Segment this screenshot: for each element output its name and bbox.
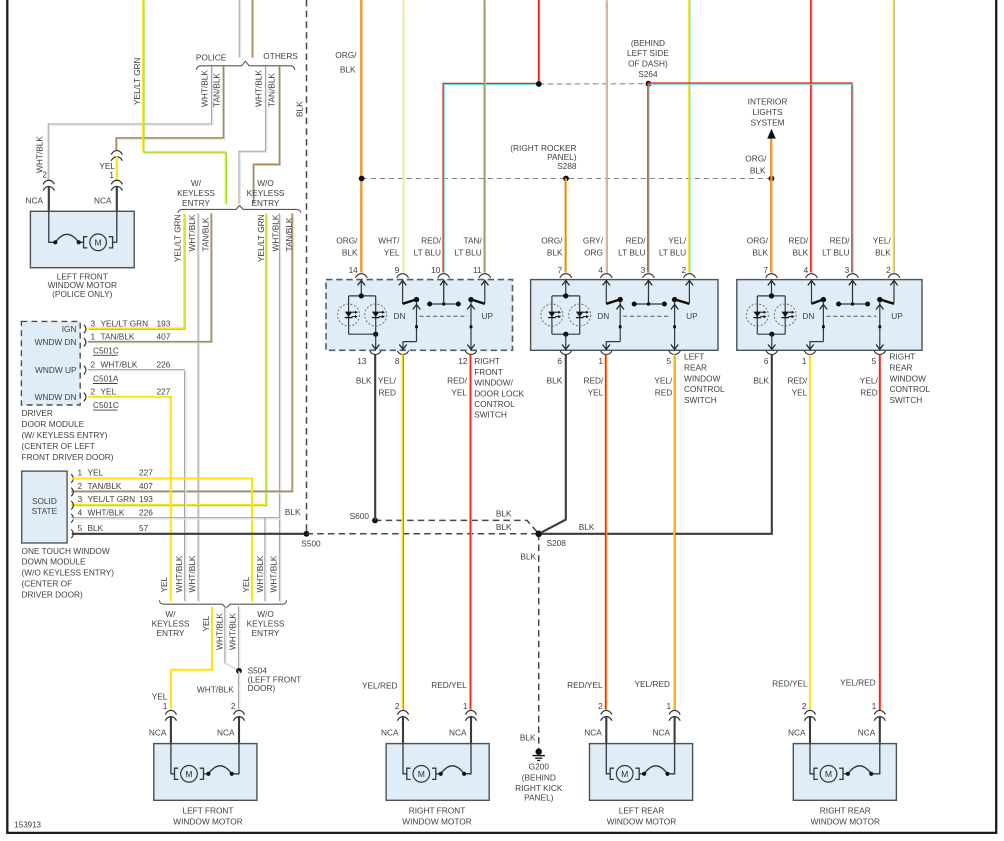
svg-text:RED/YEL: RED/YEL — [567, 680, 603, 690]
svg-text:IGN: IGN — [62, 324, 77, 334]
svg-text:S264: S264 — [638, 69, 658, 79]
svg-text:YEL: YEL — [451, 388, 467, 398]
svg-text:57: 57 — [139, 523, 149, 533]
pin socket arc top sw1 x 484.8 — [479, 274, 491, 278]
wire BLK right front switch pin13 to S600 — [374, 355, 376, 521]
wire YEL from WNDW DN down to lower brace — [88, 397, 170, 602]
pin socket arc bottom sw3 x 810.0 — [804, 351, 815, 355]
svg-text:S600: S600 — [350, 511, 370, 521]
svg-text:DRIVER: DRIVER — [22, 408, 53, 418]
svg-text:153913: 153913 — [14, 821, 41, 830]
svg-text:(POLICE ONLY): (POLICE ONLY) — [52, 289, 112, 299]
wire YEL/LT GRN main from top to keyless brace — [143, 0, 227, 205]
pin label ORG/BLK (sw2 pin7) — [541, 236, 563, 258]
svg-text:NCA: NCA — [25, 196, 43, 206]
svg-text:LT BLU: LT BLU — [618, 247, 645, 257]
wire NCA to right front window motor right pin — [470, 716, 472, 744]
svg-text:3: 3 — [845, 265, 850, 275]
label RED/YEL (sw2 pin1 wire) — [583, 376, 604, 398]
common bar pin 3 (sw3) — [836, 280, 870, 307]
connector break at police motor pin 2 — [43, 180, 54, 184]
right front window motor — [386, 744, 489, 801]
svg-text:(CENTER OF LEFT: (CENTER OF LEFT — [22, 441, 95, 451]
svg-text:ENTRY: ENTRY — [252, 628, 280, 638]
svg-text:WHT/BLK: WHT/BLK — [88, 507, 125, 517]
svg-text:ENTRY: ENTRY — [252, 198, 280, 208]
svg-text:LIGHTS: LIGHTS — [753, 107, 783, 117]
pin label RED/LT BLU (sw1 pin10) — [414, 236, 442, 258]
module pin bracket at y 396.9 — [84, 393, 86, 402]
svg-text:WHT/BLK: WHT/BLK — [101, 359, 138, 369]
caption left front window motor — [173, 806, 242, 827]
svg-text:RIGHT FRONT: RIGHT FRONT — [409, 806, 466, 816]
wire TAN/BLK to driver door module WNDW DN — [88, 213, 213, 343]
wire NCA to right front window motor left pin — [402, 716, 404, 744]
pin socket arc top sw3 x 894.0 — [888, 274, 900, 278]
svg-text:CONTROL: CONTROL — [474, 399, 515, 409]
svg-text:LT BLU: LT BLU — [659, 247, 686, 257]
svg-text:5: 5 — [667, 356, 672, 366]
svg-text:WINDOW MOTOR: WINDOW MOTOR — [811, 817, 880, 827]
module pin bracket at y 342.2 — [84, 338, 86, 347]
UP switch contact (sw3) — [876, 280, 898, 351]
svg-text:WHT/BLK: WHT/BLK — [35, 136, 45, 173]
svg-text:ORG/: ORG/ — [747, 236, 769, 246]
svg-text:INTERIOR: INTERIOR — [748, 97, 788, 107]
svg-text:UP: UP — [891, 311, 903, 321]
connector break at right front window motor pin 2 — [397, 710, 408, 714]
svg-text:UP: UP — [482, 311, 494, 321]
dashed BLK wire from top to S500 — [306, 0, 308, 534]
svg-text:YEL: YEL — [384, 247, 400, 257]
splice S288 — [563, 176, 569, 182]
svg-text:2: 2 — [91, 359, 96, 369]
svg-text:12: 12 — [458, 356, 468, 366]
svg-text:C501C: C501C — [93, 345, 119, 355]
svg-text:WHT/BLK: WHT/BLK — [174, 555, 184, 592]
name right front window/door lock control switch — [474, 356, 524, 420]
svg-text:YEL: YEL — [152, 691, 168, 701]
svg-text:(W/ KEYLESS ENTRY): (W/ KEYLESS ENTRY) — [22, 430, 108, 440]
wire NCA to police motor pin 1 — [116, 186, 118, 212]
wire BLK one-touch pin 5 to S500 — [72, 533, 304, 535]
wire RED/LT BLU from S264 down to left rear switch pin 3 — [648, 83, 649, 273]
brace keyless merge (lower) — [159, 600, 286, 608]
wire RED/LT BLU from S264 to right rear switch pin 3 — [648, 83, 853, 273]
connector break at right front window motor pin 1 — [465, 710, 476, 714]
svg-text:YEL/LT GRN: YEL/LT GRN — [173, 214, 183, 262]
svg-text:2: 2 — [395, 701, 400, 711]
svg-text:226: 226 — [157, 359, 171, 369]
svg-text:FRONT DRIVER DOOR): FRONT DRIVER DOOR) — [22, 452, 114, 462]
svg-text:3: 3 — [78, 494, 83, 504]
solid state pin bracket y 533.8 — [71, 530, 73, 539]
svg-text:BLK: BLK — [88, 523, 104, 533]
svg-text:TAN/BLK: TAN/BLK — [88, 481, 122, 491]
pin label RED/LT BLU (sw3 pin3) — [822, 236, 850, 258]
svg-text:YEL: YEL — [241, 576, 251, 592]
pin label TAN/LT BLU (sw1 pin11) — [454, 236, 482, 258]
wire YEL from one-touch pin 1 down to lower brace — [72, 479, 252, 602]
wire YEL/RED sw2 pin5 to left rear motor pin 1 — [674, 354, 675, 710]
wire WHT/BLK left group straight to lower brace — [198, 213, 199, 602]
svg-text:ENTRY: ENTRY — [182, 198, 210, 208]
svg-text:BLK: BLK — [750, 165, 766, 175]
svg-text:14: 14 — [349, 265, 359, 275]
svg-text:6: 6 — [764, 356, 769, 366]
svg-text:ORG/: ORG/ — [541, 236, 563, 246]
svg-text:YEL/: YEL/ — [860, 376, 879, 386]
UP switch contact (sw2) — [671, 280, 693, 351]
svg-text:10: 10 — [431, 265, 441, 275]
wire RED/YEL sw3 pin1 to right rear motor pin 2 — [809, 355, 811, 710]
dashed BLK S500 to S208 — [307, 533, 539, 535]
svg-text:YEL/LT GRN: YEL/LT GRN — [132, 57, 142, 105]
junction ORG/BLK at S288 rail (right) — [769, 176, 775, 182]
svg-text:WHT/BLK: WHT/BLK — [268, 555, 278, 592]
svg-text:NCA: NCA — [449, 727, 467, 737]
connector break at left front window motor pin 2 — [233, 710, 244, 714]
svg-text:227: 227 — [139, 468, 153, 478]
svg-text:1: 1 — [109, 170, 114, 180]
svg-text:NCA: NCA — [788, 727, 806, 737]
svg-text:PANEL): PANEL) — [524, 793, 554, 803]
svg-text:NCA: NCA — [653, 727, 671, 737]
svg-text:13: 13 — [357, 356, 367, 366]
wire NCA to left front window motor right pin — [238, 716, 240, 744]
junction ORG/BLK at S288 rail (left) — [359, 176, 365, 182]
svg-text:RED/: RED/ — [787, 376, 808, 386]
wire GRY/ORG from top to left rear switch pin 4 — [606, 0, 607, 274]
svg-text:YEL/RED: YEL/RED — [362, 681, 398, 691]
pin label YEL/LT BLU (sw2 pin2) — [659, 236, 687, 258]
pin socket arc bottom sw2 x 606.3 — [601, 351, 612, 355]
underline C501C — [93, 354, 118, 356]
svg-text:5: 5 — [78, 523, 83, 533]
caption right rear window motor — [811, 806, 880, 827]
svg-text:6: 6 — [557, 356, 562, 366]
svg-text:RED/YEL: RED/YEL — [772, 679, 808, 689]
name right rear window control switch — [890, 352, 931, 405]
pin label RED/BLK (sw3 pin4) — [788, 236, 809, 258]
wire TAN/BLK from top to POLICE/OTHERS brace — [252, 0, 253, 59]
connector break at right rear window motor pin 1 — [874, 710, 885, 714]
svg-text:226: 226 — [139, 507, 153, 517]
svg-text:WINDOW MOTOR: WINDOW MOTOR — [607, 817, 676, 827]
ground G200 symbol — [533, 749, 545, 761]
pin label RED/LT BLU (sw2 pin3) — [618, 236, 646, 258]
pin label ORG/BLK (sw1 pin14) — [336, 236, 358, 258]
svg-text:LEFT FRONT: LEFT FRONT — [182, 806, 233, 816]
solid state pin bracket y 518.3 — [71, 514, 73, 523]
wire WHT/BLK right group to lower brace / pin 4 — [279, 213, 280, 602]
svg-text:WHT/BLK: WHT/BLK — [228, 613, 238, 650]
mechanical link DN-UP (sw3) — [826, 315, 876, 317]
wire WHT/BLK drop from pin-4 row to lower brace — [265, 518, 266, 602]
label S288 (right rocker panel) — [510, 143, 577, 171]
pin socket arc top sw1 x 361.3 — [355, 274, 367, 278]
svg-text:ENTRY: ENTRY — [157, 628, 185, 638]
svg-text:M: M — [95, 237, 102, 247]
svg-text:WNDW DN: WNDW DN — [35, 392, 77, 402]
DN switch contact (sw1) — [399, 280, 420, 351]
pin socket arc bottom sw2 x 674.6 — [669, 351, 680, 355]
wire NCA to left rear window motor left pin — [605, 716, 607, 744]
wire WHT/BLK from WNDW UP down to lower brace — [88, 369, 186, 602]
label YEL/RED (sw1 pin8 wire) — [378, 376, 397, 398]
svg-text:REAR: REAR — [684, 363, 707, 373]
svg-text:KEYLESS: KEYLESS — [247, 188, 285, 198]
pin socket arc top sw3 x 811.5 — [806, 274, 818, 278]
svg-text:W/O: W/O — [257, 178, 274, 188]
svg-text:BLK: BLK — [520, 732, 536, 742]
svg-text:WHT/: WHT/ — [378, 236, 400, 246]
svg-text:REAR: REAR — [890, 363, 913, 373]
brace POLICE/OTHERS — [196, 61, 294, 70]
wire WHT/BLK from top to POLICE/OTHERS brace — [239, 0, 240, 59]
svg-text:YEL/LT GRN: YEL/LT GRN — [101, 318, 149, 328]
svg-text:407: 407 — [139, 481, 153, 491]
pin label YEL/BLK (sw3 pin2) — [873, 236, 892, 258]
wire NCA to police motor pin 2 — [48, 186, 50, 212]
pin socket arc top sw2 x 648.5 — [643, 274, 655, 278]
svg-text:2: 2 — [231, 701, 236, 711]
svg-text:BLK: BLK — [793, 247, 809, 257]
svg-text:G200: G200 — [529, 762, 550, 772]
illumination LEDs (sw1) — [338, 280, 387, 351]
svg-text:RED/: RED/ — [788, 236, 809, 246]
caption right front window motor — [402, 806, 471, 827]
svg-text:W/: W/ — [165, 609, 176, 619]
wire NCA to left front window motor left pin — [170, 716, 172, 744]
svg-text:WINDOW: WINDOW — [890, 373, 927, 383]
pin label WHT/YEL (sw1 pin9) — [378, 236, 400, 258]
connector break at left rear window motor pin 1 — [669, 710, 680, 714]
connector break at left rear window motor pin 2 — [601, 710, 612, 714]
illumination LEDs (sw2) — [541, 280, 591, 351]
left rear window motor — [590, 744, 693, 801]
wire YEL/RED sw3 pin5 to right rear motor pin 1 — [879, 355, 881, 710]
svg-text:BLK: BLK — [294, 101, 304, 117]
svg-text:ORG/: ORG/ — [336, 236, 358, 246]
svg-text:2: 2 — [598, 701, 603, 711]
svg-text:YEL/LT GRN: YEL/LT GRN — [256, 214, 266, 262]
splice S208 — [535, 531, 542, 538]
svg-text:LEFT: LEFT — [684, 352, 704, 362]
svg-text:SWITCH: SWITCH — [890, 395, 923, 405]
svg-text:(BEHIND: (BEHIND — [631, 38, 665, 48]
svg-text:4: 4 — [78, 507, 83, 517]
svg-text:M: M — [621, 769, 628, 779]
svg-text:YEL: YEL — [201, 615, 211, 631]
svg-text:LEFT REAR: LEFT REAR — [619, 806, 665, 816]
common bar pin 3 (sw2) — [632, 280, 667, 307]
svg-text:RED: RED — [860, 388, 878, 398]
svg-text:SOLID: SOLID — [32, 496, 57, 506]
svg-text:7: 7 — [763, 265, 768, 275]
svg-text:RED/: RED/ — [447, 376, 468, 386]
svg-text:BLK: BLK — [342, 247, 358, 257]
svg-text:(CENTER OF: (CENTER OF — [22, 579, 73, 589]
svg-text:S208: S208 — [547, 538, 567, 548]
svg-text:STATE: STATE — [32, 506, 58, 516]
pin label GRY/ORG (sw2 pin4) — [583, 236, 604, 258]
name left rear window control switch — [684, 352, 725, 405]
wire YEL to police motor pin 1 — [116, 156, 118, 180]
svg-text:TAN/BLK: TAN/BLK — [201, 217, 211, 251]
svg-text:LEFT SIDE: LEFT SIDE — [627, 48, 669, 58]
svg-text:RED/: RED/ — [583, 376, 604, 386]
svg-text:KEYLESS: KEYLESS — [152, 619, 190, 629]
svg-text:WINDOW MOTOR: WINDOW MOTOR — [173, 817, 242, 827]
dashed BLK S208 to ground G200 — [538, 534, 540, 749]
dashed link junction to S264 — [539, 83, 649, 85]
svg-text:BLK: BLK — [340, 65, 356, 75]
pin socket arc bottom sw2 x 565.8 — [560, 351, 571, 355]
label YEL/RED (sw3 pin5 wire) — [860, 376, 879, 398]
svg-text:C501C: C501C — [93, 400, 119, 410]
svg-text:S288: S288 — [557, 161, 577, 171]
svg-text:YEL/: YEL/ — [668, 236, 687, 246]
wire WHT/BLK below brace into S504 — [225, 606, 240, 671]
label G200 (behind right kick panel) — [515, 762, 563, 803]
solid state pin bracket y 491.9 — [71, 488, 73, 497]
svg-text:UP: UP — [686, 311, 698, 321]
left rear window control switch box — [531, 280, 718, 351]
svg-text:TAN/BLK: TAN/BLK — [284, 217, 294, 251]
svg-text:W/: W/ — [191, 178, 202, 188]
underline C501C (2) — [93, 409, 118, 411]
svg-text:WHT/BLK: WHT/BLK — [187, 214, 197, 251]
svg-text:1: 1 — [872, 701, 877, 711]
svg-text:WHT/BLK: WHT/BLK — [255, 555, 265, 592]
svg-text:NCA: NCA — [149, 727, 167, 737]
svg-text:S500: S500 — [301, 538, 321, 548]
svg-text:SWITCH: SWITCH — [474, 410, 507, 420]
wire WHT/YEL from top to pin 9 — [403, 0, 404, 274]
svg-text:ORG/: ORG/ — [335, 50, 357, 60]
svg-text:LT BLU: LT BLU — [414, 247, 441, 257]
svg-text:YEL: YEL — [88, 468, 104, 478]
wire NCA to right rear window motor right pin — [879, 716, 881, 744]
svg-text:WHT/BLK: WHT/BLK — [197, 684, 234, 694]
svg-text:WHT/BLK: WHT/BLK — [254, 70, 264, 107]
illumination LEDs (sw3) — [746, 280, 796, 351]
svg-text:CONTROL: CONTROL — [890, 384, 931, 394]
svg-text:YEL: YEL — [588, 388, 604, 398]
svg-text:YEL/RED: YEL/RED — [634, 679, 670, 689]
svg-text:DN: DN — [394, 311, 406, 321]
label RED/YEL (sw1 pin12 wire) — [447, 376, 468, 398]
wire YEL/LT GRN to driver door module IGN — [88, 213, 185, 329]
svg-text:OF DASH): OF DASH) — [628, 59, 668, 69]
svg-text:1: 1 — [802, 356, 807, 366]
mechanical link DN-UP (sw2) — [623, 315, 671, 317]
svg-text:1: 1 — [78, 468, 83, 478]
wire YEL/BLK from top to right rear switch pin 2 — [893, 0, 894, 274]
svg-text:RED/: RED/ — [830, 236, 851, 246]
connector break at police motor pin 1 — [111, 180, 122, 184]
svg-text:YEL: YEL — [159, 576, 169, 592]
svg-text:WINDOW/: WINDOW/ — [474, 378, 513, 388]
pin socket arc top sw3 x 852.5 — [847, 274, 859, 278]
svg-text:ORG/: ORG/ — [745, 154, 767, 164]
svg-text:POLICE: POLICE — [196, 52, 227, 62]
svg-text:DOOR LOCK: DOOR LOCK — [474, 388, 524, 398]
svg-text:2: 2 — [91, 386, 96, 396]
connector break at left front window motor pin 1 — [165, 710, 176, 714]
wire ORG/BLK S288 to left rear switch pin 7 — [565, 178, 566, 274]
connector break at right rear window motor pin 2 — [804, 710, 815, 714]
svg-text:WINDOW MOTOR: WINDOW MOTOR — [402, 817, 471, 827]
pin socket arc top sw2 x 606.3 — [600, 274, 612, 278]
caption one touch window down module — [22, 546, 115, 600]
common bar pin 10 (sw1) — [427, 280, 461, 307]
svg-text:4: 4 — [598, 265, 603, 275]
svg-text:C501A: C501A — [93, 374, 119, 384]
svg-text:NCA: NCA — [94, 196, 112, 206]
svg-text:YEL/: YEL/ — [654, 376, 673, 386]
svg-text:BLK: BLK — [753, 376, 769, 386]
svg-text:KEYLESS: KEYLESS — [247, 619, 285, 629]
wire WHT/BLK police drop to left front window motor (police) — [48, 66, 212, 181]
caption left front window motor (police only) — [48, 271, 117, 299]
splice S500 — [304, 531, 310, 537]
pin socket arc bottom sw3 x 771.8 — [766, 351, 777, 355]
svg-text:BLK: BLK — [752, 247, 768, 257]
svg-text:WHT/BLK: WHT/BLK — [200, 70, 210, 107]
arrow to interior lights system — [767, 129, 776, 139]
svg-text:LT BLU: LT BLU — [822, 247, 849, 257]
svg-text:1: 1 — [463, 701, 468, 711]
svg-text:RED/: RED/ — [626, 236, 647, 246]
wire WHT/BLK one-touch pin 4 row — [71, 518, 280, 519]
wire TAN/LT BLU from top to pin 11 — [484, 0, 485, 274]
svg-text:YEL: YEL — [792, 388, 808, 398]
dashed BLK S600 to S208 — [375, 520, 539, 533]
wire YEL/LT GRN to one-touch module pin 3 — [71, 213, 267, 506]
wire YEL/RED sw1 pin8 to right front motor pin 2 — [402, 354, 403, 710]
label S264 (behind left side of dash) — [627, 38, 669, 79]
inline connector on TAN/BLK to YEL (police) — [111, 151, 122, 155]
wire ORG/BLK from top to right front switch pin 14 — [361, 0, 362, 274]
svg-text:BLK: BLK — [520, 552, 536, 562]
svg-text:11: 11 — [473, 265, 482, 275]
junction on RED/LT BLU at dashed S264 rail — [536, 81, 542, 87]
label YEL/RED (sw2 pin5 wire) — [654, 376, 673, 398]
svg-text:NCA: NCA — [217, 727, 235, 737]
svg-text:BLK: BLK — [547, 376, 563, 386]
module row text 3 YEL/LT GRN 193 — [91, 318, 96, 328]
svg-text:LT BLU: LT BLU — [454, 247, 481, 257]
pin label ORG/BLK (sw3 pin7) — [747, 236, 769, 258]
svg-text:M: M — [185, 769, 192, 779]
svg-text:2: 2 — [681, 265, 686, 275]
svg-text:FRONT: FRONT — [474, 367, 503, 377]
svg-text:ONE TOUCH WINDOW: ONE TOUCH WINDOW — [22, 546, 110, 556]
svg-text:OTHERS: OTHERS — [263, 51, 298, 61]
svg-text:BLK: BLK — [285, 507, 301, 517]
svg-text:SWITCH: SWITCH — [684, 395, 717, 405]
svg-text:YEL: YEL — [101, 386, 117, 396]
svg-text:BLK: BLK — [356, 376, 372, 386]
svg-text:(W/O KEYLESS ENTRY): (W/O KEYLESS ENTRY) — [22, 568, 115, 578]
right front window/door lock control switch box — [326, 280, 513, 351]
svg-text:3: 3 — [91, 318, 96, 328]
wire BLK right rear switch pin6 to S208 — [542, 355, 772, 534]
svg-text:1: 1 — [598, 356, 603, 366]
pin socket arc top sw1 x 443.7 — [438, 274, 450, 278]
